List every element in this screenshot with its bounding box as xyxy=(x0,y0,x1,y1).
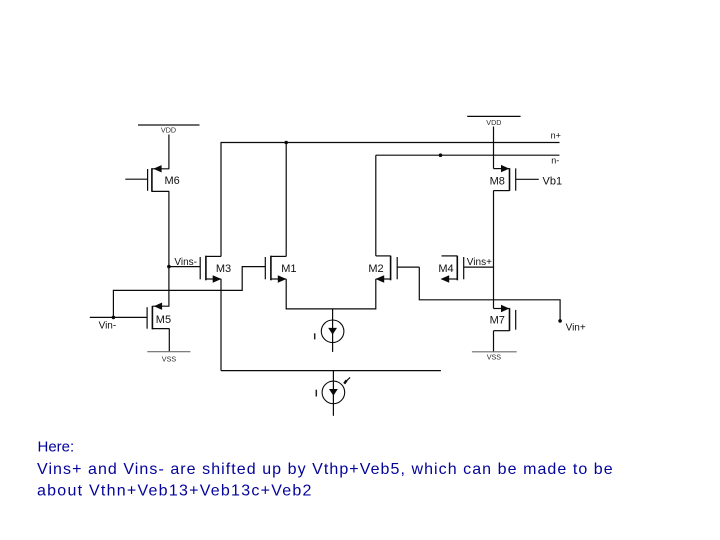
wire M1 drain up to n+ dot xyxy=(285,143,287,257)
svg-text:M1: M1 xyxy=(281,263,296,275)
ground rail VSS (right) xyxy=(472,351,517,353)
svg-text:Vin+: Vin+ xyxy=(566,323,586,334)
power rail VDD (right) xyxy=(467,115,520,117)
power rail VDD (left) xyxy=(138,124,200,126)
svg-text:Vins+ and Vins- are shifted up: Vins+ and Vins- are shifted up by Vthp+V… xyxy=(37,461,614,478)
svg-text:VDD: VDD xyxy=(161,126,176,135)
transistor M8 xyxy=(494,165,539,191)
ground rail VSS (left) xyxy=(147,351,190,353)
wire tail2 line xyxy=(221,370,441,372)
svg-text:M3: M3 xyxy=(216,263,231,275)
transistor M5 xyxy=(90,303,170,330)
svg-text:M8: M8 xyxy=(490,176,505,188)
node dot: M1 drain on n+ line xyxy=(284,141,288,145)
node dot Vin+ xyxy=(558,319,562,323)
wire M8 drain down to M7 (M4 gate column) xyxy=(493,191,495,309)
svg-text:Here:: Here: xyxy=(38,439,75,456)
node dot Vin- xyxy=(112,316,116,320)
wire tail2 to current source I2 xyxy=(332,371,334,416)
svg-text:VSS: VSS xyxy=(162,355,177,364)
wire M3 drain down to tail2 xyxy=(220,279,222,371)
wire M5 drain to VSS xyxy=(168,329,170,352)
svg-text:M6: M6 xyxy=(165,175,180,187)
svg-text:VSS: VSS xyxy=(487,352,502,361)
checkmark tick xyxy=(344,380,346,383)
transistor M2 xyxy=(376,256,420,283)
svg-text:M2: M2 xyxy=(368,263,383,275)
wire M1 gate to Vin- node (gate routing) xyxy=(113,267,265,318)
svg-text:Vins+: Vins+ xyxy=(467,257,492,268)
svg-text:M4: M4 xyxy=(438,263,453,275)
wire M6 drain down to M5 source xyxy=(168,191,170,306)
svg-text:M7: M7 xyxy=(490,315,505,327)
wire M3 drain up to n+ line xyxy=(220,143,222,257)
transistor M4 xyxy=(441,256,494,283)
wire VDD right to M8 source xyxy=(493,127,495,169)
transistor M6 xyxy=(125,165,169,192)
wire M7 source to VSS xyxy=(493,331,495,352)
label I (I1) xyxy=(314,333,316,339)
wire M2 drain up to n- line xyxy=(375,155,377,256)
svg-text:n-: n- xyxy=(551,156,559,166)
svg-text:M5: M5 xyxy=(156,314,171,326)
node dot: M3 gate tap on M6-M5 column xyxy=(167,265,171,269)
transistor M1 xyxy=(265,256,286,283)
current source I2 xyxy=(322,381,345,404)
wire M2 gate to Vin+ node xyxy=(419,267,560,321)
wire tail to current source I1 xyxy=(332,309,334,352)
wire n+ line xyxy=(221,142,560,144)
wire M1/M2 tail xyxy=(286,279,376,309)
wire VDD to M6 source xyxy=(168,135,170,169)
current source I1 xyxy=(321,320,344,343)
svg-text:Vins-: Vins- xyxy=(174,257,197,268)
svg-text:about Vthn+Veb13+Veb13c+Veb2: about Vthn+Veb13+Veb13c+Veb2 xyxy=(37,483,313,500)
svg-text:Vin-: Vin- xyxy=(99,321,117,332)
transistor M7 xyxy=(494,305,516,331)
node dot on n- line xyxy=(439,153,443,157)
svg-text:Vb1: Vb1 xyxy=(543,176,563,188)
label I (I2) xyxy=(315,390,317,397)
transistor M3 xyxy=(169,256,221,283)
svg-text:VDD: VDD xyxy=(486,118,501,127)
svg-text:n+: n+ xyxy=(551,131,561,141)
wire n- line xyxy=(376,154,560,156)
